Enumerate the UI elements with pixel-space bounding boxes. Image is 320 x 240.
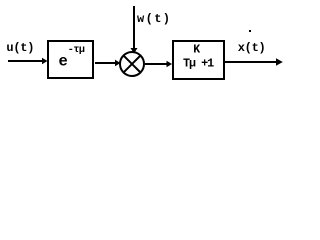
svg-text:u(t): u(t): [6, 41, 34, 55]
node x(t) output label: [238, 41, 266, 55]
summing junction (circle with X): [120, 52, 144, 76]
svg-text:x(t): x(t): [238, 41, 266, 55]
node w(t) disturbance label: [137, 12, 171, 26]
stray dot above x(t): [249, 30, 251, 32]
node u(t) input label: [6, 41, 34, 55]
wire: input u(t) to delay block: [8, 60, 43, 62]
block U2: first-order lag: [173, 41, 224, 79]
svg-text:Tµ +1: Tµ +1: [183, 56, 214, 70]
arrowhead into summing junction: [115, 60, 121, 66]
arrowhead into lag block: [167, 61, 173, 67]
svg-text:-τµ: -τµ: [68, 45, 85, 56]
wire: delay block to summing junction: [95, 62, 116, 64]
block U1: transport delay: [48, 41, 93, 78]
arrowhead into delay block: [42, 58, 48, 64]
svg-text:K: K: [193, 44, 200, 57]
value label e^-tau-mu inside delay block: [59, 45, 85, 70]
svg-text:w(t): w(t): [137, 12, 171, 26]
arrowhead output x(t): [276, 58, 283, 65]
wire: summing junction to lag block: [145, 63, 167, 65]
wire: w(t) vertical drop: [133, 6, 135, 48]
svg-text:e: e: [59, 52, 68, 70]
arrowhead down into summing junction: [131, 48, 138, 54]
wire: lag block output: [225, 61, 276, 63]
value label K over T-mu+1 inside lag block: [183, 44, 214, 71]
